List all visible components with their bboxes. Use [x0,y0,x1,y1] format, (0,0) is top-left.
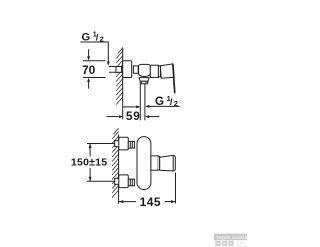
svg-text:59: 59 [126,109,140,123]
svg-text:Tegels sanitair: Tegels sanitair [216,235,247,240]
svg-text:2: 2 [100,35,104,44]
svg-text:145: 145 [140,195,161,209]
svg-text:G: G [82,32,91,44]
svg-text:70: 70 [82,63,96,77]
svg-text:150±15: 150±15 [71,157,107,169]
svg-text:/: / [170,97,173,108]
svg-text:centrale: centrale [237,244,247,247]
svg-text:/: / [96,33,99,44]
svg-text:G: G [155,96,164,108]
svg-text:2: 2 [174,99,178,108]
